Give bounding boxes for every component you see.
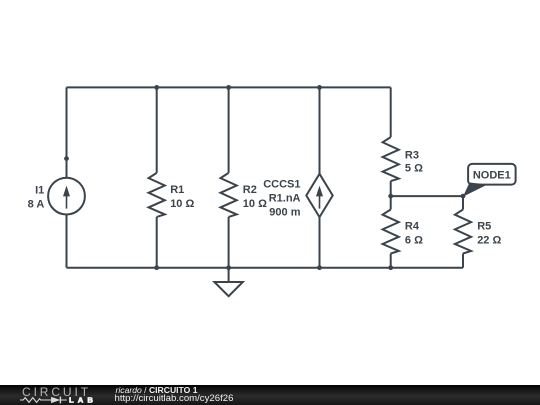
svg-text:R5: R5 xyxy=(477,221,491,233)
svg-text:R2: R2 xyxy=(243,184,257,196)
svg-text:5 Ω: 5 Ω xyxy=(405,163,423,175)
svg-text:6 Ω: 6 Ω xyxy=(405,235,423,247)
svg-text:CCCS1: CCCS1 xyxy=(263,178,300,190)
svg-text:R3: R3 xyxy=(405,149,419,161)
svg-text:10 Ω: 10 Ω xyxy=(170,198,194,210)
svg-text:I1: I1 xyxy=(35,184,44,196)
svg-text:10 Ω: 10 Ω xyxy=(243,198,267,210)
svg-text:R1: R1 xyxy=(170,184,184,196)
svg-text:R1.nA: R1.nA xyxy=(269,192,301,204)
svg-text:R4: R4 xyxy=(405,221,420,233)
svg-text:NODE1: NODE1 xyxy=(473,169,511,181)
svg-text:8 A: 8 A xyxy=(28,199,45,211)
svg-text:22 Ω: 22 Ω xyxy=(477,235,501,247)
svg-text:900 m: 900 m xyxy=(269,206,300,218)
